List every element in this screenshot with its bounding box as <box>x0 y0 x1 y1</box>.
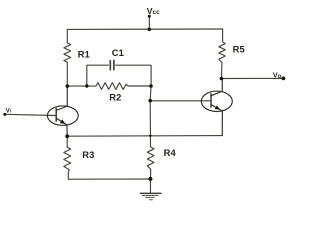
svg-text:R1: R1 <box>78 50 90 60</box>
transistor Q2 collector <box>211 79 222 96</box>
ground bar 3 <box>146 196 155 198</box>
wire Q2 base <box>150 100 211 102</box>
transistor Q1 collector <box>56 86 67 110</box>
resistor R3 <box>64 136 71 179</box>
wire Vo lead <box>221 77 283 79</box>
svg-text:Vcc: Vcc <box>147 6 160 16</box>
transistor Q1 base bar <box>55 109 57 122</box>
resistor R5 <box>219 29 226 79</box>
wire top Vcc rail <box>67 28 222 30</box>
ground bar 4 <box>150 199 153 201</box>
wire emitter row <box>67 135 222 138</box>
junction R1 bottom node <box>66 84 70 88</box>
ground bar 1 <box>140 192 161 194</box>
transistor Q2 body <box>201 91 232 111</box>
wire bottom row <box>68 178 150 180</box>
transistor Q2 emitter arrow <box>215 105 220 109</box>
junction Q1 emitter node <box>65 134 69 138</box>
svg-text:C1: C1 <box>112 48 124 58</box>
node Vcc top dot <box>148 15 151 18</box>
junction C1 left riser <box>85 84 88 87</box>
capacitor C1 branch left riser <box>87 65 109 86</box>
junction C1 right node <box>149 84 153 88</box>
wire Vcc stub <box>148 16 150 29</box>
svg-text:R4: R4 <box>164 148 177 158</box>
svg-text:VI: VI <box>6 107 11 114</box>
junction Q2 base node <box>148 99 152 103</box>
junction emitter row crossing <box>149 135 151 137</box>
transistor Q2 base bar <box>210 94 212 107</box>
transistor Q1 body <box>47 106 78 125</box>
svg-text:R2: R2 <box>109 93 121 103</box>
junction R4 bottom node <box>148 177 152 181</box>
ground bar 2 <box>142 194 158 196</box>
transistor Q1 emitter <box>56 118 67 136</box>
capacitor C1 branch right side <box>116 65 151 86</box>
resistor R1 <box>64 29 71 86</box>
wire center column to Q2 base node <box>149 86 152 101</box>
junction rail-Vcc <box>148 28 152 32</box>
wire Vi lead <box>5 114 56 115</box>
node Vi terminal dot <box>3 113 6 116</box>
wire center column to R4 <box>149 101 151 147</box>
ground stem <box>150 179 152 193</box>
capacitor C1 plates <box>110 60 114 69</box>
wire R2 row <box>67 83 151 90</box>
svg-text:R5: R5 <box>233 44 245 54</box>
junction Q2 collector node <box>220 77 224 81</box>
resistor R4 <box>147 147 154 179</box>
transistor Q1 emitter arrow <box>60 119 66 124</box>
svg-text:R3: R3 <box>82 150 94 160</box>
transistor Q2 emitter <box>211 105 222 136</box>
svg-text:Vo: Vo <box>273 70 282 80</box>
node Vo terminal dot <box>282 77 286 81</box>
